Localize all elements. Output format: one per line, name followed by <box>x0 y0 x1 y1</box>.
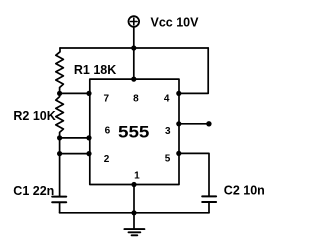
resistor R1 <box>56 48 64 93</box>
svg-text:R1 18K: R1 18K <box>74 63 116 77</box>
node output terminal <box>206 121 211 126</box>
svg-text:Vcc 10V: Vcc 10V <box>151 16 200 30</box>
svg-text:C1 22n: C1 22n <box>13 184 54 198</box>
svg-text:C2 10n: C2 10n <box>224 184 265 198</box>
wire pin6 <box>60 137 90 139</box>
wire pin1 to ground <box>133 185 135 229</box>
node rail/pin6 junction <box>57 135 62 140</box>
node R1/R2 junction <box>57 91 62 96</box>
wire pin2 <box>60 153 90 155</box>
wire pin3 output <box>179 123 207 125</box>
svg-text:6: 6 <box>105 125 111 136</box>
op-amp U1 555 body <box>90 79 179 184</box>
node pin6 <box>86 135 91 140</box>
ground <box>124 229 144 235</box>
svg-text:8: 8 <box>133 94 139 105</box>
power symbol Vcc <box>129 16 140 27</box>
svg-text:3: 3 <box>165 126 171 137</box>
wire ground rail <box>60 212 209 214</box>
svg-text:4: 4 <box>164 93 170 104</box>
svg-text:7: 7 <box>104 94 110 105</box>
wire pin5 to C2 <box>179 153 209 195</box>
svg-text:R2 10K: R2 10K <box>13 109 55 123</box>
node pin8 <box>131 77 136 82</box>
node pin7 <box>86 91 91 96</box>
node Vcc junction <box>131 45 136 50</box>
svg-text:1: 1 <box>134 170 140 181</box>
wire left rail R2 to C1 <box>59 138 61 196</box>
wire pin4 to Vcc rail <box>179 48 208 93</box>
svg-text:5: 5 <box>165 154 171 165</box>
capacitor C1 <box>52 197 66 213</box>
node ground junction <box>131 210 136 215</box>
wire power to Vcc rail <box>133 28 135 48</box>
resistor R2 <box>56 93 64 137</box>
node pin3 <box>176 121 181 126</box>
wire pin7 <box>60 92 90 94</box>
node pin5 <box>176 151 181 156</box>
node pin4 <box>176 91 181 96</box>
node rail/pin2 junction <box>57 151 62 156</box>
wire pin8 drop <box>133 48 135 79</box>
node pin2 <box>86 151 91 156</box>
node pin1 <box>131 182 136 187</box>
svg-text:555: 555 <box>118 123 149 142</box>
capacitor C2 <box>202 196 216 212</box>
svg-text:2: 2 <box>104 154 110 165</box>
wire Vcc rail <box>60 47 208 49</box>
